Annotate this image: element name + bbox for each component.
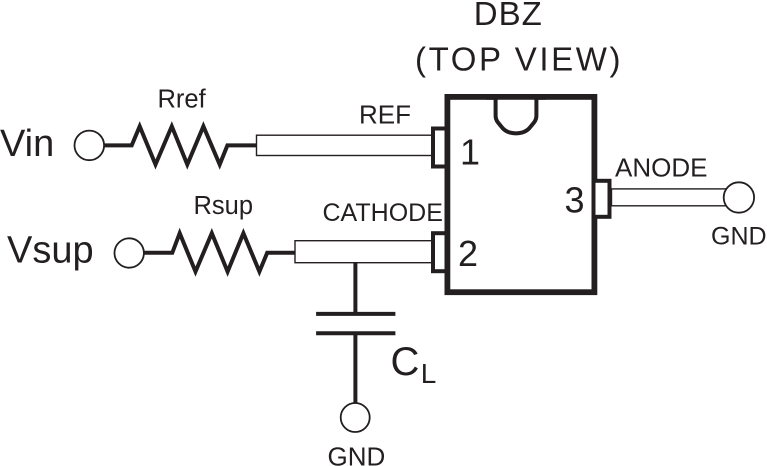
svg-text:2: 2 [458, 233, 478, 274]
svg-text:ANODE: ANODE [615, 152, 707, 182]
svg-text:GND: GND [711, 223, 767, 251]
svg-text:C: C [391, 340, 420, 384]
svg-text:Rsup: Rsup [194, 192, 254, 220]
svg-text:(TOP VIEW): (TOP VIEW) [415, 41, 623, 78]
svg-text:REF: REF [359, 100, 411, 130]
svg-text:Vin: Vin [0, 123, 54, 165]
svg-text:Rref: Rref [158, 85, 207, 113]
svg-text:GND: GND [328, 442, 386, 466]
svg-text:L: L [421, 358, 437, 389]
svg-text:DBZ: DBZ [474, 0, 543, 32]
svg-text:Vsup: Vsup [7, 230, 94, 272]
svg-text:1: 1 [460, 132, 480, 173]
svg-text:CATHODE: CATHODE [323, 199, 443, 227]
svg-text:3: 3 [565, 180, 585, 221]
